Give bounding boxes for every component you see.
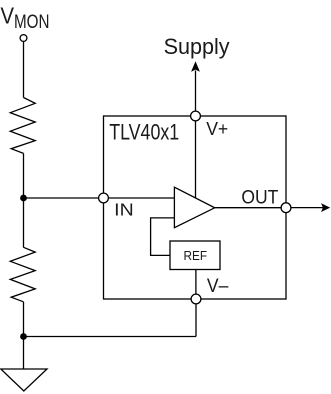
resistor R2 bbox=[10, 247, 35, 301]
svg-text:V: V bbox=[1, 3, 15, 29]
svg-text:MON: MON bbox=[14, 12, 50, 33]
svg-text:IN: IN bbox=[114, 200, 134, 220]
wire R1 to R2 through node A bbox=[23, 153, 25, 247]
OUT arrowhead bbox=[321, 203, 330, 212]
wire IN pin to op-amp non-inverting input bbox=[104, 197, 177, 199]
junction node B bbox=[20, 333, 27, 340]
junction node A bbox=[20, 195, 27, 202]
wire R2 to ground through node B bbox=[23, 302, 25, 369]
terminal VMON bbox=[20, 35, 27, 42]
wire V- pin down to node B rail (vertical) bbox=[195, 299, 197, 337]
svg-text:OUT: OUT bbox=[241, 187, 278, 208]
pin V- terminal bbox=[191, 294, 201, 304]
wire node B to V- pin (horizontal) bbox=[24, 336, 197, 338]
IC U1 TLV40x1 box bbox=[104, 116, 287, 299]
supply arrowhead bbox=[191, 61, 200, 72]
pin V+ terminal bbox=[191, 111, 201, 121]
svg-text:V+: V+ bbox=[206, 118, 228, 139]
svg-text:REF: REF bbox=[184, 248, 208, 263]
REF block bbox=[170, 241, 220, 270]
wire op-amp output to OUT pin bbox=[214, 207, 282, 209]
wire VMON terminal to R1 bbox=[23, 41, 25, 97]
resistor R1 bbox=[10, 98, 35, 154]
wire op-amp inverting input to REF block bbox=[151, 218, 175, 256]
wire REF block to V- pin bbox=[195, 270, 197, 300]
ground bbox=[1, 369, 47, 391]
pin OUT terminal bbox=[281, 203, 291, 213]
wire node A to IN pin bbox=[24, 197, 100, 199]
pin IN terminal bbox=[99, 193, 109, 203]
supply arrow wire bbox=[195, 71, 197, 112]
svg-text:Supply: Supply bbox=[164, 34, 230, 59]
OUT arrow wire bbox=[291, 207, 323, 209]
wire V+ pin to op-amp bbox=[195, 116, 197, 198]
op-amp U1 bbox=[174, 187, 214, 228]
svg-text:V–: V– bbox=[207, 276, 229, 297]
svg-text:TLV40x1: TLV40x1 bbox=[109, 119, 179, 144]
